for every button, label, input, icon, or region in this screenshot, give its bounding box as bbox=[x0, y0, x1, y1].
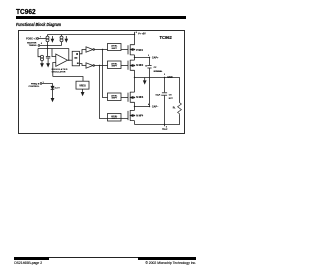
junction dot MF1 bulk bbox=[134, 49, 135, 50]
current arrow I1 bbox=[51, 36, 53, 42]
svg-text:CAP+: CAP+ bbox=[152, 57, 159, 60]
svg-text:10µF +: 10µF + bbox=[155, 94, 162, 96]
wire V+ rail down to MF1 bbox=[134, 35, 136, 45]
pump capacitor CP bbox=[147, 58, 151, 107]
svg-text:SHIFT: SHIFT bbox=[111, 66, 117, 68]
svg-text:TIMING: TIMING bbox=[29, 45, 37, 47]
junction dot node-pin6 bbox=[47, 45, 48, 46]
wire level shift 3 to gate MF3 bbox=[121, 97, 128, 99]
svg-text:N MF3: N MF3 bbox=[136, 97, 144, 99]
divide-by-2 flip-flop box bbox=[72, 51, 79, 66]
junction dot V+ rail bbox=[134, 34, 135, 35]
transistor MF4 bbox=[128, 110, 135, 121]
svg-text:2: 2 bbox=[148, 55, 149, 57]
svg-text:7: 7 bbox=[40, 36, 41, 38]
svg-text:SHIFT: SHIFT bbox=[111, 98, 117, 100]
svg-text:8: 8 bbox=[136, 32, 137, 34]
junction dot bus1 bbox=[102, 49, 103, 50]
footer rule left block bbox=[14, 257, 49, 261]
current arrow I2 bbox=[65, 36, 67, 42]
section title Functional Block Diagram bbox=[16, 22, 61, 27]
capacitor COSC bbox=[46, 56, 50, 63]
junction dot CAP+ pin bbox=[149, 57, 150, 58]
bus wire A1 to level shift 3 bbox=[103, 50, 108, 98]
svg-text:FOSC ÷ 2: FOSC ÷ 2 bbox=[26, 37, 37, 40]
feedback vertical wire bbox=[68, 49, 70, 61]
svg-text:CONTROL: CONTROL bbox=[28, 86, 39, 88]
wire pin OSC to current source I1 bbox=[39, 38, 46, 40]
wire GND down to MF3 bbox=[134, 78, 136, 93]
pin VOUT tick bbox=[164, 125, 166, 127]
header rule bbox=[16, 16, 186, 19]
pin V+ tick bbox=[134, 32, 136, 35]
wire level shift 2 to gate MF2 bbox=[121, 65, 128, 67]
svg-text:SHIFT: SHIFT bbox=[111, 48, 117, 50]
GND rail wire bbox=[135, 78, 180, 103]
wire CAP- down to MF4 bbox=[134, 107, 136, 111]
svg-text:6.4 V: 6.4 V bbox=[55, 87, 61, 90]
svg-text:EXTERNAL: EXTERNAL bbox=[154, 70, 164, 73]
ground arrow on GND rail bbox=[143, 78, 146, 84]
pin BOOST circle bbox=[40, 83, 42, 85]
svg-text:N MF2: N MF2 bbox=[136, 65, 144, 67]
junction dot bus2 bbox=[99, 65, 100, 66]
schmitt output wire bbox=[68, 59, 73, 61]
junction dot chain CAP+ bbox=[134, 57, 135, 58]
figure frame bbox=[19, 31, 185, 134]
junction dot GND reservoir bbox=[164, 77, 165, 78]
wire pin BOOST to zener bbox=[42, 84, 53, 87]
wire FF output1 bbox=[80, 50, 87, 54]
svg-text:V+ +5V: V+ +5V bbox=[138, 33, 146, 35]
level shift box 4 bbox=[108, 114, 122, 122]
svg-text:10: 10 bbox=[145, 66, 147, 68]
flip-flop mark Q bbox=[76, 53, 78, 55]
junction dot MF3 bulk bbox=[134, 97, 135, 98]
footer rule right block bbox=[138, 257, 196, 261]
wire pin to I2 bottom node bbox=[40, 45, 62, 47]
svg-text:TC962: TC962 bbox=[160, 35, 173, 40]
current source I1 bbox=[46, 35, 49, 43]
junction dot chain CAP- bbox=[134, 106, 135, 107]
CAP- rail wire bbox=[135, 106, 150, 108]
transistor MF1 bbox=[128, 45, 135, 56]
flip-flop mark Qbar bbox=[77, 63, 79, 65]
VOUT rail wire bbox=[135, 114, 180, 124]
wire FF output2 bbox=[80, 64, 87, 66]
wire level shift 4 to gate MF4 bbox=[108, 118, 129, 120]
current source I3 bbox=[41, 55, 44, 61]
svg-text:CAP–: CAP– bbox=[152, 105, 159, 108]
footer text page number bbox=[14, 261, 42, 265]
current source I2 bbox=[60, 35, 63, 46]
oscillator node vertical wire bbox=[47, 43, 49, 57]
wire MF3 to CAP- bbox=[134, 102, 136, 106]
regulator box VREG bbox=[76, 81, 89, 89]
wire feedback to I3 bbox=[38, 49, 41, 57]
pin MASTER TIMING circle bbox=[38, 45, 40, 47]
level shift box 3 bbox=[108, 93, 122, 101]
svg-text:6: 6 bbox=[41, 43, 42, 45]
inverter A1 bbox=[86, 47, 94, 52]
load resistor RL bbox=[178, 103, 182, 115]
bus wire A2 to level shift 4 bbox=[100, 66, 108, 119]
schmitt trigger oscillator U1 bbox=[56, 54, 68, 66]
feedback wire bbox=[38, 48, 69, 50]
level shift box 1 bbox=[108, 44, 122, 51]
svg-text:GND: GND bbox=[167, 76, 173, 79]
wire A1 to level shift 1 bbox=[95, 49, 108, 51]
junction dot GND chain bbox=[134, 77, 135, 78]
svg-text:N MF4: N MF4 bbox=[136, 115, 144, 118]
pin OSC circle bbox=[37, 38, 39, 40]
junction dot VOUT bbox=[164, 124, 165, 125]
svg-text:CR: CR bbox=[169, 94, 173, 96]
junction dot MF4 bulk bbox=[134, 115, 135, 116]
inverter A2 bbox=[86, 63, 94, 68]
transistor MF2 bbox=[128, 60, 135, 71]
svg-text:VOUT: VOUT bbox=[162, 128, 168, 131]
ground arrow below VREG bbox=[81, 89, 84, 95]
svg-text:CP: CP bbox=[154, 67, 158, 69]
V+ rail wire bbox=[48, 34, 135, 36]
wire MF1 to CAP+ bbox=[135, 55, 150, 58]
junction dot MF2 bulk bbox=[134, 65, 135, 66]
svg-text:EXT: EXT bbox=[169, 98, 174, 100]
wire MF4 to VOUT rail bbox=[134, 121, 136, 125]
ground arrow below zener bbox=[51, 98, 54, 101]
junction dot schmitt output bbox=[68, 60, 69, 61]
svg-text:RL: RL bbox=[173, 107, 176, 109]
svg-text:VREG: VREG bbox=[79, 86, 86, 88]
junction dot CAP- pin bbox=[149, 106, 150, 107]
transistor MF3 bbox=[128, 92, 135, 103]
zener diode D1 bbox=[51, 86, 54, 98]
svg-text:3: 3 bbox=[164, 74, 165, 76]
page title TC962 bbox=[16, 7, 36, 16]
ground arrow below COSC bbox=[47, 64, 50, 67]
wire CAP+ down to MF2 bbox=[134, 58, 136, 61]
wire to VREG box bbox=[53, 77, 83, 82]
wire level shift 1 to gate MF1 bbox=[121, 49, 128, 51]
wire MF2 to GND rail bbox=[134, 70, 136, 77]
reservoir capacitor CR bbox=[162, 78, 167, 125]
svg-text:OSCILLATOR: OSCILLATOR bbox=[52, 70, 66, 73]
footer rule thin middle bbox=[49, 256, 137, 259]
wire schmitt input 2 bbox=[53, 63, 56, 77]
wire feedback to schmitt input 1 bbox=[52, 49, 56, 57]
wire A2 to level shift 2 bbox=[95, 65, 108, 67]
svg-text:P MF1: P MF1 bbox=[136, 50, 143, 52]
footer text copyright bbox=[96, 261, 196, 265]
flip-flop mark FF bbox=[74, 57, 77, 58]
junction dot node-feedback bbox=[47, 48, 48, 49]
ground arrow below I3 bbox=[41, 61, 44, 67]
level shift box 2 bbox=[108, 61, 122, 69]
